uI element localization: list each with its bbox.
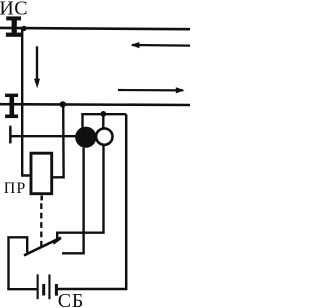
fuse/relay ПР body [31,153,52,194]
junction node on top wire [100,111,106,117]
wire from bus-1 junction down to fuse ПР left side [22,28,31,175]
bus line 2 (lower outgoing line wire) [0,103,190,106]
wire from bus-2 junction down to fuse ПР right side [52,104,64,177]
svg-text:ПР: ПР [4,180,26,197]
filled indicator disc (lamp/bell) [75,127,96,148]
wire from plug terminal to indicator (y=136) [9,135,77,137]
switch blade tip barb [53,238,60,243]
switch left contact wire with corner [9,237,28,289]
switch blade [24,238,61,256]
svg-text:СБ: СБ [58,290,84,308]
junction node on bus 2 [60,101,66,107]
line terminal symbol I1 on bus 1 [6,16,21,36]
stub from junction down to open circle [102,114,104,129]
right-hand wire: top wire corner down to bottom wire [57,114,127,289]
dashed mechanical link from ПР to switch blade [40,203,42,247]
junction node on bus 1 [21,26,26,31]
open indicator circle (lamp) [96,128,112,144]
stub below ПР body [40,196,43,201]
direction arrow (left) between bus lines, upper [131,42,190,48]
bus line 1 (top incoming line wire) [0,28,190,29]
plug terminal bar [9,126,12,144]
stub from top wire down to filled disc [81,113,83,128]
direction arrow (right) between bus lines, lower [118,87,185,93]
battery СБ plates [37,274,58,299]
bottom wire, left segment to battery [7,288,37,290]
wire from filled disc down to switch lower contact [62,148,84,254]
top connecting wire over indicators (y=114) [81,113,126,115]
wire from open circle down to switch upper contact [57,146,103,239]
line terminal symbol I2 on bus 2 [5,94,18,119]
direction arrow (down) on left branch [34,46,40,88]
